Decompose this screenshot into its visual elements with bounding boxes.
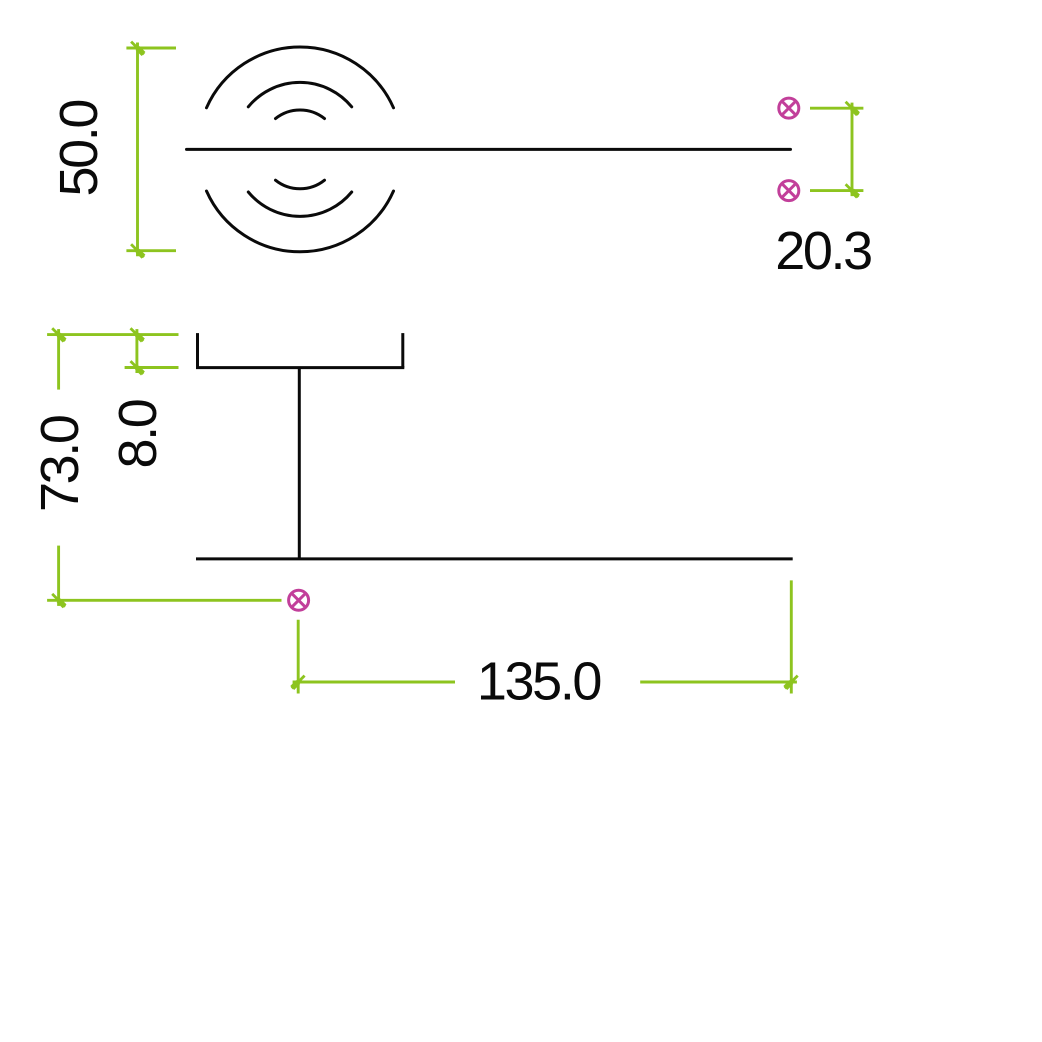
svg-text:8.0: 8.0 [108, 400, 168, 468]
svg-text:135.0: 135.0 [477, 651, 600, 711]
svg-text:20.3: 20.3 [775, 221, 871, 281]
svg-text:50.0: 50.0 [49, 101, 109, 197]
svg-text:73.0: 73.0 [30, 416, 90, 512]
